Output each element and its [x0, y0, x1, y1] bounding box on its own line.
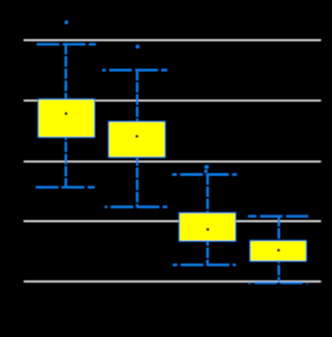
mean dot 1 — [65, 112, 68, 115]
whisker 4 top cap — [248, 215, 308, 217]
mean dot 2 — [135, 135, 138, 138]
gridline y5 — [24, 281, 321, 283]
whisker 2 top cap — [103, 69, 168, 71]
mean dot 4 — [277, 249, 280, 252]
whisker 2 vertical — [136, 70, 138, 207]
whisker 3 top cap — [173, 174, 237, 176]
gridline y4 — [24, 220, 321, 222]
outlier 3b — [205, 170, 208, 173]
box 4 — [250, 241, 306, 261]
whisker 3 vertical — [207, 175, 209, 265]
gridline y3 — [24, 161, 321, 163]
gridline y1 — [24, 39, 321, 41]
box 3 — [179, 213, 235, 241]
whisker 4 bottom cap — [249, 282, 308, 284]
outlier 3a — [205, 165, 208, 168]
whisker 1 bottom cap — [36, 186, 95, 188]
mean dot 3 — [206, 228, 209, 231]
box 2 — [109, 122, 166, 158]
gridline y2 — [24, 100, 321, 102]
whisker 4 vertical — [278, 216, 280, 282]
whisker 1 vertical — [65, 44, 67, 187]
whisker 2 bottom cap — [105, 206, 167, 208]
outlier 1 — [65, 21, 68, 24]
whisker 1 top cap — [37, 43, 96, 45]
whisker 3 bottom cap — [173, 264, 236, 266]
outlier 2 — [136, 45, 139, 48]
box 1 — [38, 99, 94, 137]
